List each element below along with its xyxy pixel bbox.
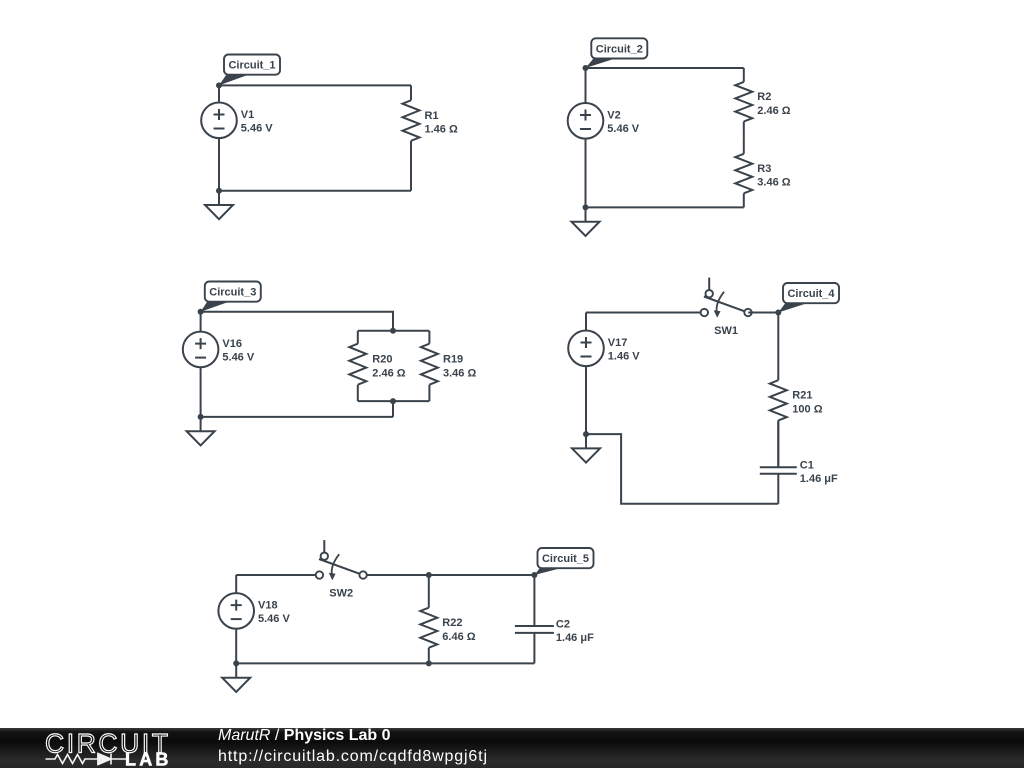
voltage source V17 — [568, 313, 640, 435]
junction — [233, 660, 239, 666]
ground — [572, 207, 600, 236]
junction — [390, 328, 396, 334]
svg-text:Circuit_4: Circuit_4 — [787, 288, 835, 300]
Circuit_1 bottom wire — [219, 190, 411, 192]
svg-text:100 Ω: 100 Ω — [792, 403, 822, 415]
voltage source V1 — [201, 85, 273, 190]
svg-text:2.46 Ω: 2.46 Ω — [757, 105, 790, 117]
wire switch to node — [748, 312, 778, 314]
svg-text:R20: R20 — [372, 354, 392, 366]
resistor R2 — [735, 68, 790, 138]
Circuit_2 bottom wire — [586, 206, 744, 208]
ground — [222, 663, 250, 692]
junction — [426, 660, 432, 666]
svg-text:C1: C1 — [800, 460, 814, 472]
svg-text:SW2: SW2 — [329, 587, 353, 599]
Circuit_4 return wire — [586, 434, 778, 504]
svg-text:5.46 V: 5.46 V — [222, 352, 254, 364]
Circuit_3 top wire — [201, 312, 393, 331]
svg-text:Circuit_5: Circuit_5 — [542, 553, 589, 565]
svg-text:V18: V18 — [258, 600, 278, 612]
wire parallel bottom rail — [358, 400, 430, 402]
node label Circuit_4 — [778, 283, 839, 313]
junction — [198, 309, 204, 315]
junction — [216, 82, 222, 88]
junction — [583, 204, 589, 210]
wire switch to capacitor node — [367, 574, 534, 576]
Circuit_1 top wire — [219, 84, 411, 86]
svg-text:6.46 Ω: 6.46 Ω — [442, 631, 475, 643]
junction — [531, 572, 537, 578]
capacitor C2 — [515, 575, 594, 663]
Circuit_5 bottom wire — [236, 662, 534, 664]
wire down from parallel pair — [392, 401, 394, 417]
url text — [218, 749, 488, 765]
title text — [218, 728, 488, 744]
svg-text:5.46 V: 5.46 V — [607, 123, 639, 135]
svg-text:Circuit_3: Circuit_3 — [209, 287, 256, 299]
svg-text:1.46 μF: 1.46 μF — [800, 473, 838, 485]
voltage source V18 — [218, 575, 290, 663]
junction — [198, 414, 204, 420]
resistor R21 — [770, 313, 823, 468]
svg-text:5.46 V: 5.46 V — [241, 122, 273, 134]
wire parallel top rail — [358, 330, 430, 332]
switch SW2 — [316, 540, 367, 599]
switch SW1 — [701, 278, 752, 337]
svg-text:V1: V1 — [241, 109, 254, 121]
node label Circuit_1 — [219, 55, 280, 86]
svg-text:SW1: SW1 — [714, 325, 738, 337]
svg-text:1.46 V: 1.46 V — [608, 350, 640, 362]
svg-text:R22: R22 — [442, 617, 462, 629]
svg-text:R21: R21 — [792, 390, 812, 402]
voltage source V16 — [183, 312, 255, 417]
svg-text:LAB: LAB — [125, 750, 172, 768]
capacitor C1 — [760, 420, 838, 503]
junction — [583, 65, 589, 71]
resistor R20 — [349, 331, 405, 401]
ground — [187, 417, 215, 446]
resistor R1 — [403, 85, 458, 190]
svg-text:Circuit_2: Circuit_2 — [596, 43, 643, 55]
ground — [572, 434, 600, 463]
svg-text:2.46 Ω: 2.46 Ω — [372, 367, 405, 379]
svg-text:3.46 Ω: 3.46 Ω — [443, 367, 476, 379]
resistor R22 — [420, 575, 475, 663]
junction — [216, 188, 222, 194]
svg-text:V2: V2 — [607, 110, 620, 122]
Circuit_3 bottom wire — [201, 416, 393, 418]
junction — [775, 310, 781, 316]
Circuit_4 top wire to switch — [586, 312, 701, 314]
junction — [426, 572, 432, 578]
svg-text:R3: R3 — [757, 163, 771, 175]
Circuit_2 top wire — [586, 67, 744, 69]
node label Circuit_5 — [534, 548, 593, 575]
svg-text:1.46 Ω: 1.46 Ω — [425, 124, 458, 136]
CircuitLab logo — [0, 728, 190, 768]
Circuit_5 top wire to switch — [236, 574, 315, 576]
svg-text:R2: R2 — [757, 91, 771, 103]
svg-text:3.46 Ω: 3.46 Ω — [757, 177, 790, 189]
junction — [390, 398, 396, 404]
svg-text:1.46 μF: 1.46 μF — [556, 632, 594, 644]
node label Circuit_3 — [201, 282, 261, 312]
svg-text:C2: C2 — [556, 619, 570, 631]
svg-text:R19: R19 — [443, 354, 463, 366]
svg-text:V17: V17 — [608, 337, 628, 349]
resistor R3 — [735, 138, 790, 208]
voltage source V2 — [568, 68, 640, 207]
svg-text:R1: R1 — [425, 110, 439, 122]
svg-text:Circuit_1: Circuit_1 — [228, 60, 275, 72]
logo resistor-diode glyph — [46, 754, 127, 765]
junction — [583, 431, 589, 437]
resistor R19 — [421, 331, 477, 401]
svg-text:5.46 V: 5.46 V — [258, 613, 290, 625]
node label Circuit_2 — [586, 38, 648, 68]
svg-text:V16: V16 — [222, 338, 242, 350]
ground — [205, 191, 233, 220]
